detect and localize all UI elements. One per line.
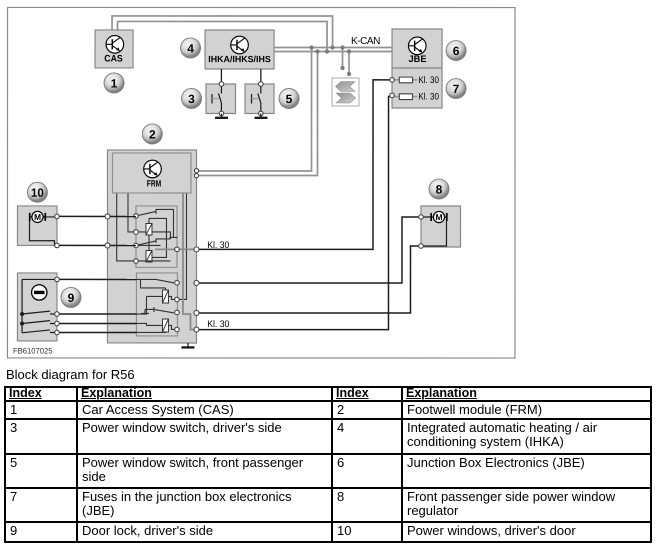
index circle 3 xyxy=(182,88,202,108)
wire motor10 to FRM upper xyxy=(57,215,136,217)
block FRM outer xyxy=(107,150,196,343)
box1 contact 1 xyxy=(136,209,178,258)
block CAS xyxy=(95,30,133,68)
svg-text:10: 10 xyxy=(31,186,44,200)
svg-text:JBE: JBE xyxy=(409,54,427,65)
junction dots on K-CAN xyxy=(309,45,351,53)
svg-text:FB6107025: FB6107025 xyxy=(13,347,53,356)
box1 relay 1 xyxy=(146,218,152,245)
index circle 9 xyxy=(61,287,81,307)
box2 contact 2 xyxy=(141,307,174,314)
box2 relay3 wires xyxy=(136,296,174,314)
wire K-CAN pair IHKA to JBE xyxy=(274,47,392,51)
svg-text:8: 8 xyxy=(436,183,443,197)
label K-CAN xyxy=(351,36,380,47)
diagram frame xyxy=(7,7,515,358)
caption xyxy=(6,368,135,381)
ground under FRM xyxy=(181,343,194,348)
box1 contact 2 xyxy=(136,238,171,245)
box1 row4 wire xyxy=(136,260,171,262)
index circle 2 xyxy=(142,124,162,144)
FRM internal gray wire xyxy=(183,193,197,329)
svg-text:Kl. 30: Kl. 30 xyxy=(207,240,229,251)
fuse 2 in JBE xyxy=(392,94,417,100)
index circle 10 xyxy=(27,182,47,202)
wire FRM to motor8 upper xyxy=(196,217,421,283)
wire IHKA to switch3 xyxy=(220,69,222,84)
box1 relay 2 xyxy=(146,245,152,262)
block JBE xyxy=(392,29,442,108)
wire motor10 to FRM lower xyxy=(57,244,136,246)
index circle 7 xyxy=(446,79,466,99)
block 10 window motor driver door xyxy=(17,206,59,248)
box2 relay 4 xyxy=(162,319,168,332)
block IHKA/IHKS/IHS xyxy=(205,30,274,69)
svg-text:4: 4 xyxy=(187,41,194,55)
legend table xyxy=(4,386,652,543)
svg-text:9: 9 xyxy=(68,291,75,305)
svg-text:Kl. 30: Kl. 30 xyxy=(207,319,229,330)
box2 right nodes xyxy=(175,280,180,331)
block switch 3 xyxy=(206,82,236,116)
FRM inner relay box 2 xyxy=(136,273,177,336)
index circle 4 xyxy=(181,38,201,58)
ground under switch 5 xyxy=(255,113,268,117)
wires block9 to FRM xyxy=(57,279,137,332)
wire K-CAN drop to FRM lower xyxy=(197,51,318,175)
ground under switch 3 xyxy=(215,113,228,117)
wire fuse1 to FRM Kl.30 xyxy=(196,80,392,250)
index circle 5 xyxy=(279,88,299,108)
box2 relay4 wires xyxy=(136,323,174,332)
svg-text:CAS: CAS xyxy=(104,54,123,65)
svg-text:5: 5 xyxy=(286,92,293,106)
wire K-CAN drop to FRM upper xyxy=(197,47,312,171)
FRM edge nodes left xyxy=(105,214,110,248)
svg-text:Kl. 30: Kl. 30 xyxy=(418,75,439,86)
FRM inner relay box 1 xyxy=(136,206,177,268)
wire K-CAN bus lower from CAS xyxy=(118,21,328,51)
box2 relay 3 xyxy=(162,288,168,303)
JBE edge nodes xyxy=(390,78,395,98)
wire K-CAN stub 1 xyxy=(340,48,344,71)
index circle 8 xyxy=(429,179,449,199)
box1 left nodes xyxy=(134,214,139,264)
svg-text:6: 6 xyxy=(453,44,460,58)
svg-text:1: 1 xyxy=(111,76,118,90)
wire K-CAN stub 2 xyxy=(347,52,351,77)
svg-text:7: 7 xyxy=(453,82,460,96)
block 8 front passenger window motor xyxy=(419,206,461,248)
index circle 1 xyxy=(104,73,124,93)
wire IHKA to switch5 xyxy=(260,69,262,84)
svg-text:3: 3 xyxy=(188,92,195,106)
svg-text:FRM: FRM xyxy=(147,179,162,189)
FRM internal verticals from header xyxy=(117,193,187,299)
svg-text:Kl. 30: Kl. 30 xyxy=(418,92,439,103)
box2 contact 1 xyxy=(136,279,174,288)
FRM edge nodes right xyxy=(194,169,199,333)
fuse 1 in JBE xyxy=(392,77,417,83)
block FRM header xyxy=(112,153,191,193)
wire FRM to motor8 lower xyxy=(196,246,421,313)
block switch 5 xyxy=(245,82,274,116)
wire fuse2 to FRM Kl.30 xyxy=(196,96,392,329)
svg-text:IHKA/IHKS/IHS: IHKA/IHKS/IHS xyxy=(208,54,271,64)
Kl.30 gray wire in FRM xyxy=(155,247,197,252)
svg-text:2: 2 xyxy=(149,127,156,141)
box1 row2 wire xyxy=(136,232,171,239)
data link connector symbol xyxy=(332,78,359,106)
index circle 6 xyxy=(446,41,466,61)
block 9 door lock driver side xyxy=(17,273,59,341)
wire K-CAN bus upper from CAS xyxy=(112,16,333,48)
